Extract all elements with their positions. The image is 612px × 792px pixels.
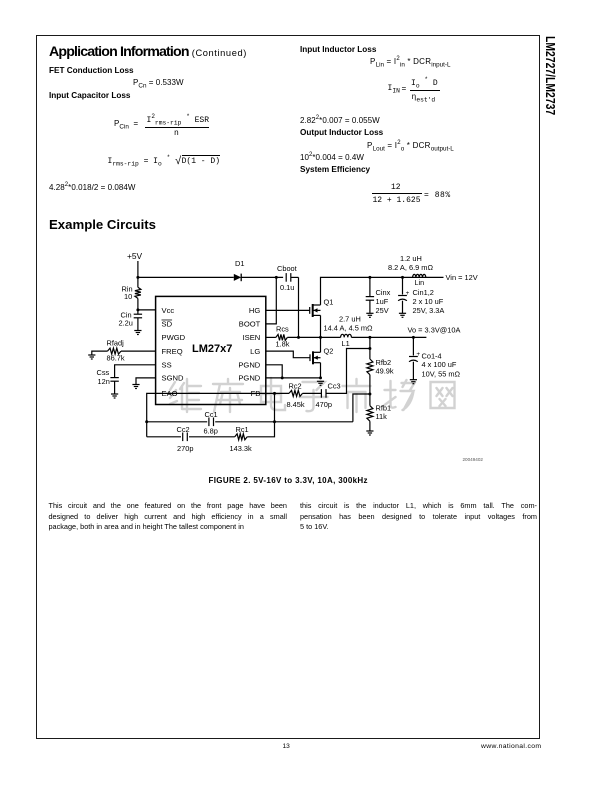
svg-text:+: +: [416, 351, 420, 358]
page border: [36, 35, 540, 739]
wire: [138, 309, 156, 311]
node Vin rail / Cin12: [401, 276, 404, 279]
svg-text:LG: LG: [250, 347, 260, 356]
svg-text:BOOT: BOOT: [239, 320, 261, 329]
svg-text:10: 10: [124, 292, 132, 301]
svg-text:Css: Css: [97, 368, 110, 377]
diode D1: [234, 274, 241, 282]
ground: [366, 431, 373, 435]
node SW / Cboot: [297, 336, 300, 339]
wire: [369, 337, 371, 359]
capacitor Co1-4 (polarized): [409, 357, 418, 362]
capacitor Css: [110, 378, 118, 382]
figure caption: [209, 476, 368, 485]
wire: [121, 350, 156, 352]
node FB: [273, 392, 276, 395]
svg-text:10V, 55 mΩ: 10V, 55 mΩ: [422, 370, 461, 379]
svg-text:8.45k: 8.45k: [287, 400, 305, 409]
bottom two-column text: [49, 501, 288, 533]
svg-text:1.2 uH: 1.2 uH: [400, 254, 422, 263]
svg-text:Cinx: Cinx: [376, 288, 391, 297]
wire: [266, 365, 282, 378]
wire: [147, 393, 156, 436]
wire: [287, 336, 340, 338]
svg-text:143.3k: 143.3k: [230, 444, 252, 453]
svg-text:Q2: Q2: [324, 346, 334, 355]
svg-text:0.1u: 0.1u: [280, 283, 294, 292]
node BOOT rail junction: [275, 276, 278, 279]
ground: [410, 380, 417, 384]
node Vo / Rfb2: [368, 336, 371, 339]
transistor Q1: [310, 304, 321, 317]
svg-text:86.7k: 86.7k: [107, 354, 125, 363]
watermark weiku.com chinese characters: [170, 378, 455, 412]
svg-text:SGND: SGND: [162, 374, 184, 383]
svg-text:Cboot: Cboot: [277, 264, 297, 273]
wire: [412, 362, 414, 380]
node EAO comp node: [145, 420, 148, 423]
svg-text:2.2u: 2.2u: [119, 319, 133, 328]
svg-text:SD: SD: [162, 320, 173, 329]
node Vin rail / Cinx: [368, 276, 371, 279]
svg-text:470p: 470p: [316, 400, 332, 409]
inductor Lin: [413, 274, 426, 277]
wire: [215, 421, 353, 423]
ground: [134, 331, 141, 335]
footer: [283, 743, 290, 750]
wire: [114, 381, 116, 394]
wire: [402, 301, 404, 314]
resistor Rfadj: [108, 348, 122, 354]
wire: [291, 276, 299, 278]
wire: [147, 436, 181, 438]
resistor Rfb2: [367, 359, 373, 375]
svg-text:8.2 A, 6.9 mΩ: 8.2 A, 6.9 mΩ: [388, 263, 433, 272]
svg-text:Vo = 3.3V@10A: Vo = 3.3V@10A: [408, 326, 461, 335]
resistor Rcs: [276, 334, 288, 340]
wire: [351, 336, 426, 338]
capacitor Cinx: [366, 297, 374, 301]
node FB comp node: [273, 420, 276, 423]
wire: [303, 392, 322, 394]
node SW / Q1-Q2: [319, 336, 322, 339]
svg-text:14.4 A, 4.5 mΩ: 14.4 A, 4.5 mΩ: [324, 324, 374, 333]
wire: [369, 300, 371, 313]
resistor Rc2: [289, 390, 303, 396]
wire: [266, 336, 276, 338]
capacitor Cc3: [321, 389, 326, 398]
wire: [369, 277, 371, 296]
wire: [138, 276, 234, 278]
capacitor Cboot: [286, 273, 291, 282]
svg-text:Rc2: Rc2: [289, 382, 302, 391]
wire: [136, 378, 156, 385]
capacitor Cin: [134, 314, 142, 318]
wire: [266, 309, 310, 311]
svg-text:Cc3: Cc3: [328, 382, 341, 391]
wire: [241, 276, 283, 278]
node +5V rail: [136, 276, 139, 279]
wire: [369, 421, 371, 431]
svg-text:+5V: +5V: [127, 251, 143, 261]
wire: [137, 318, 139, 331]
ground: [111, 394, 118, 398]
svg-text:2.7 uH: 2.7 uH: [339, 315, 361, 324]
svg-text:ISEN: ISEN: [243, 333, 261, 342]
capacitor Cin1,2 (polarized): [398, 296, 407, 301]
node Vcc node: [136, 308, 139, 311]
wire: [266, 277, 277, 324]
capacitor Cc2: [183, 433, 188, 442]
svg-text:25V: 25V: [376, 306, 389, 315]
svg-text:4 x 100 uF: 4 x 100 uF: [422, 360, 457, 369]
resistor Rfb1: [367, 406, 373, 422]
svg-text:Rc1: Rc1: [236, 425, 249, 434]
wire: [189, 436, 235, 438]
svg-text:LM27x7: LM27x7: [192, 343, 232, 355]
svg-text:Lin: Lin: [415, 278, 425, 287]
transistor Q2: [310, 351, 321, 364]
wire: [137, 298, 139, 314]
svg-text:2 x 10 uF: 2 x 10 uF: [413, 297, 444, 306]
wire: [412, 337, 414, 355]
svg-text:11k: 11k: [376, 412, 388, 421]
svg-text:PGND: PGND: [238, 374, 260, 383]
node comp tap: [368, 347, 371, 350]
capacitor Cc1: [209, 418, 214, 427]
wire: [321, 277, 444, 305]
svg-text:Rfadj: Rfadj: [107, 339, 125, 348]
svg-text:1uF: 1uF: [376, 297, 389, 306]
node PGND junction: [281, 376, 284, 379]
node FB divider: [368, 393, 371, 396]
wire: [266, 351, 310, 358]
svg-text:L1: L1: [342, 339, 350, 348]
svg-text:Cc2: Cc2: [177, 425, 190, 434]
ground: [366, 313, 373, 317]
wire: [298, 277, 300, 337]
inductor L1: [341, 334, 352, 337]
wire: [156, 392, 289, 394]
wire: [247, 393, 274, 436]
wire: [266, 377, 321, 379]
svg-text:PWGD: PWGD: [162, 333, 186, 342]
wire: [353, 394, 370, 422]
svg-text:PGND: PGND: [238, 361, 260, 370]
wire: [320, 337, 322, 352]
ground: [132, 385, 139, 389]
ground: [317, 381, 324, 385]
ground: [88, 355, 95, 359]
node Vo / Co1-4: [412, 336, 415, 339]
svg-text:FREQ: FREQ: [162, 347, 183, 356]
op-amp U1 LM27x7 controller IC: [156, 296, 266, 404]
svg-text:270p: 270p: [177, 444, 193, 453]
svg-text:D1: D1: [235, 259, 244, 268]
wire: [320, 315, 322, 337]
wire: [147, 421, 208, 423]
svg-text:25V, 3.3A: 25V, 3.3A: [413, 306, 445, 315]
svg-text:12n: 12n: [98, 377, 110, 386]
svg-text:Q1: Q1: [324, 297, 334, 306]
wire: [320, 363, 322, 378]
svg-text:20049402: 20049402: [463, 457, 484, 462]
node PGND node: [319, 376, 322, 379]
wire: [115, 365, 156, 378]
svg-text:+: +: [406, 290, 410, 297]
ground: [399, 313, 406, 317]
svg-text:Cc1: Cc1: [205, 410, 218, 419]
wire: [137, 261, 139, 287]
wire: [402, 277, 404, 294]
svg-text:Vin = 12V: Vin = 12V: [446, 273, 478, 282]
wire: [326, 349, 370, 394]
wire: [369, 375, 371, 406]
wire: [92, 351, 108, 355]
svg-text:Vcc: Vcc: [162, 306, 175, 315]
resistor Rc1: [235, 434, 247, 440]
svg-text:6.8p: 6.8p: [204, 427, 218, 436]
svg-text:49.9k: 49.9k: [376, 367, 394, 376]
svg-text:Rcs: Rcs: [276, 325, 289, 334]
svg-text:HG: HG: [249, 306, 260, 315]
resistor Rin: [135, 287, 141, 298]
svg-text:Cin1,2: Cin1,2: [413, 288, 434, 297]
sidebar part number: [543, 36, 558, 115]
svg-text:SS: SS: [162, 361, 172, 370]
svg-text:1.8k: 1.8k: [276, 340, 290, 349]
